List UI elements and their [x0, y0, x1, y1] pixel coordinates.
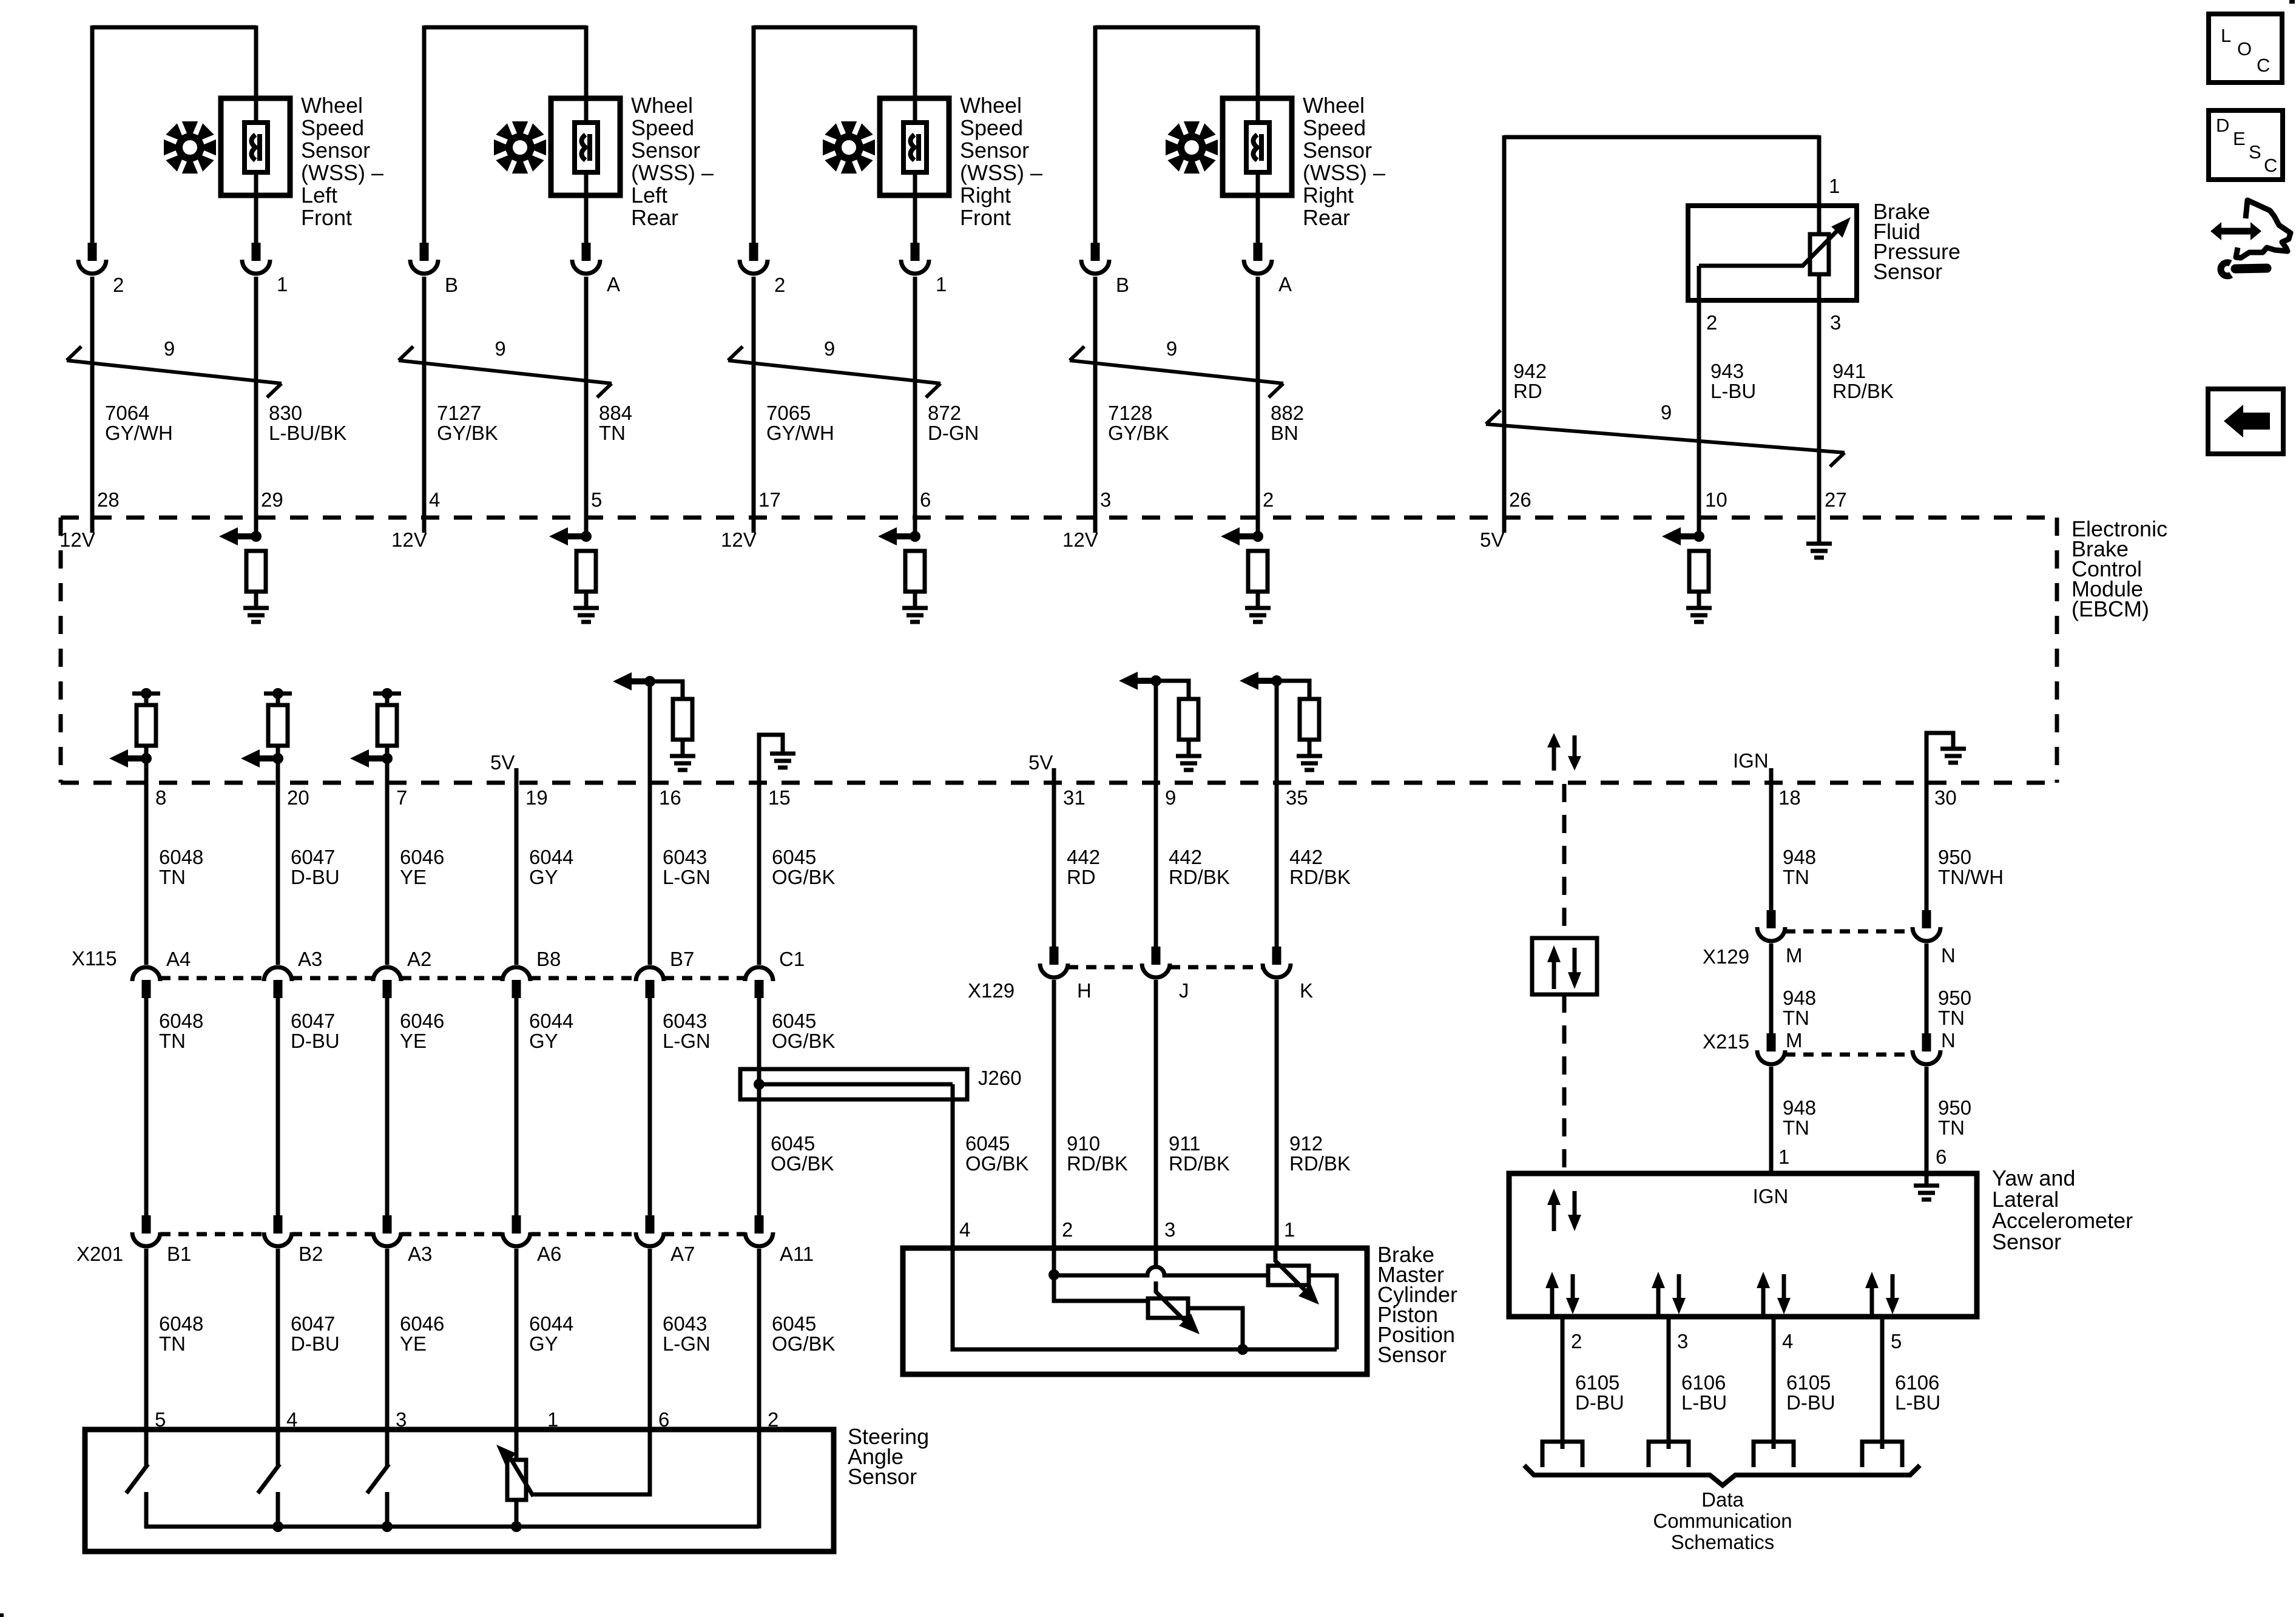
- switch contact 4: [276, 1427, 280, 1467]
- svg-text:M: M: [1786, 1029, 1803, 1052]
- wire A11 to bus: [757, 1249, 761, 1528]
- svg-text:Sensor: Sensor: [960, 138, 1029, 163]
- wire 6105 D-BU: [1772, 1317, 1776, 1449]
- wire WSS left front pin 2 lead: [90, 25, 95, 245]
- wire: [1697, 592, 1701, 608]
- ground: [670, 754, 695, 758]
- branch to R2: [1054, 1275, 1148, 1301]
- junction: [1237, 1344, 1248, 1355]
- brake fluid pressure sensor top wire: [1504, 135, 1819, 140]
- EBCM dashed box bottom edge: [61, 781, 2057, 785]
- switch contact 5: [144, 1427, 149, 1467]
- svg-text:882: 882: [1271, 402, 1304, 424]
- svg-text:Wheel: Wheel: [301, 93, 363, 118]
- wire 7065 GY/WH: [752, 277, 756, 533]
- splice pack J260: [740, 1069, 967, 1099]
- wire pin 2 internal: [1052, 1249, 1056, 1275]
- wire 6106 L-BU: [1667, 1317, 1671, 1449]
- serial data symbol above EBCM edge: [1552, 746, 1556, 771]
- svg-text:4: 4: [429, 488, 440, 511]
- serial data symbol yaw pin 3: [1656, 1287, 1661, 1314]
- wire: [681, 740, 685, 756]
- connector X215 pin M: [1767, 1033, 1776, 1052]
- wire pin 35 internal: [1275, 681, 1279, 784]
- svg-text:C: C: [2257, 55, 2270, 76]
- harness 9 crossing WSS left rear: [399, 360, 612, 383]
- resistor: [673, 699, 692, 740]
- wire: [144, 746, 149, 784]
- svg-text:948: 948: [1783, 846, 1816, 868]
- svg-text:Data: Data: [1701, 1488, 1744, 1511]
- wire 950 TN (X215 to yaw sensor): [1925, 1067, 1929, 1176]
- wire pin 9 internal: [1154, 681, 1158, 784]
- wire 6105 D-BU: [1561, 1317, 1565, 1449]
- wire 942 RD: [1502, 135, 1507, 533]
- svg-text:Left: Left: [631, 183, 667, 208]
- wire WSS right rear pin B lead: [1093, 25, 1098, 245]
- svg-text:6106: 6106: [1681, 1371, 1726, 1394]
- dashed serial data wire (to yaw sensor): [1562, 994, 1567, 1173]
- svg-text:1: 1: [936, 273, 947, 295]
- wheel speed sensor right front top wire: [754, 25, 915, 30]
- wire: [1187, 740, 1191, 756]
- svg-text:2: 2: [1062, 1218, 1073, 1241]
- svg-text:A: A: [607, 273, 620, 295]
- connector X215 pin N: [1922, 1033, 1931, 1052]
- ground: [243, 606, 269, 610]
- svg-text:9: 9: [164, 337, 175, 360]
- connector X115 pin A3: [264, 967, 292, 981]
- wire 7127 GY/BK: [422, 277, 427, 533]
- ground: [1297, 754, 1322, 758]
- switch lower contact: [385, 1492, 390, 1528]
- svg-text:X215: X215: [1703, 1030, 1749, 1053]
- wire 6048 TN (X115 to X201): [144, 997, 149, 1215]
- wire WSS right front pin 1 lead: [913, 25, 917, 245]
- wire: [276, 746, 280, 784]
- svg-text:7: 7: [396, 786, 407, 809]
- EBCM dashed box right edge: [2055, 518, 2059, 783]
- wire 7128 GY/BK: [1093, 277, 1098, 533]
- svg-text:6043: 6043: [663, 1312, 707, 1335]
- pull-up node pin 10: [1693, 531, 1704, 542]
- diagnostic tool icon wrench: [2221, 263, 2231, 276]
- svg-text:884: 884: [599, 402, 632, 424]
- svg-text:GY/BK: GY/BK: [437, 422, 498, 444]
- svg-text:26: 26: [1509, 488, 1531, 511]
- svg-text:6047: 6047: [291, 1010, 335, 1032]
- svg-text:GY/WH: GY/WH: [766, 422, 834, 444]
- svg-text:X201: X201: [76, 1243, 123, 1265]
- wire: [584, 592, 589, 608]
- svg-text:L-BU/BK: L-BU/BK: [269, 422, 346, 444]
- svg-text:16: 16: [659, 786, 681, 809]
- wire 950 TN/WH (EBCM to X129): [1925, 783, 1929, 928]
- connector X115 pin B7: [636, 967, 664, 981]
- svg-text:Speed: Speed: [1303, 115, 1366, 140]
- R1 wiper from pin 1: [1274, 1248, 1278, 1262]
- R2 output: [1188, 1308, 1243, 1349]
- svg-text:E: E: [2233, 128, 2246, 149]
- svg-text:TN: TN: [1783, 866, 1809, 888]
- svg-text:Wheel: Wheel: [631, 93, 693, 118]
- svg-text:6048: 6048: [159, 1010, 203, 1032]
- svg-text:YE: YE: [400, 1332, 427, 1355]
- wire: [1256, 592, 1260, 608]
- svg-text:A: A: [1278, 273, 1292, 295]
- svg-text:K: K: [1300, 979, 1313, 1002]
- svg-text:6: 6: [1936, 1146, 1947, 1168]
- pickup element WSS right front: [903, 123, 927, 172]
- resistor: [1300, 699, 1319, 740]
- svg-text:9: 9: [824, 337, 835, 360]
- svg-text:M: M: [1786, 944, 1803, 967]
- svg-text:Speed: Speed: [960, 115, 1023, 140]
- svg-text:GY/WH: GY/WH: [105, 422, 173, 444]
- svg-text:OG/BK: OG/BK: [965, 1152, 1029, 1175]
- switch contact 3: [385, 1427, 390, 1467]
- svg-text:442: 442: [1067, 846, 1100, 868]
- svg-text:Sensor: Sensor: [631, 138, 700, 163]
- svg-text:IGN: IGN: [1753, 1185, 1789, 1207]
- svg-text:BN: BN: [1271, 422, 1298, 444]
- svg-text:TN: TN: [1783, 1007, 1809, 1029]
- serial data symbol yaw pin 5: [1870, 1287, 1874, 1314]
- wire 948 TN (EBCM to X129): [1769, 768, 1774, 928]
- svg-text:A3: A3: [298, 948, 322, 970]
- svg-text:5V: 5V: [1028, 751, 1053, 774]
- svg-text:5: 5: [1891, 1330, 1902, 1352]
- branch to pull resistor: [650, 681, 683, 699]
- wire WSS left rear pin A lead: [584, 25, 589, 245]
- X201 dashed connector line: [160, 1232, 264, 1237]
- svg-text:12V: 12V: [1062, 528, 1098, 551]
- svg-text:950: 950: [1938, 846, 1971, 868]
- svg-text:J: J: [1179, 979, 1189, 1002]
- wire to R1 with hop over pin3 wire: [1054, 1267, 1268, 1275]
- svg-text:S: S: [2249, 141, 2261, 163]
- svg-text:OG/BK: OG/BK: [772, 866, 836, 888]
- wire 884 TN: [584, 277, 589, 536]
- EBCM internal sensor feed 7: rail tee: [373, 692, 401, 696]
- harness 9 crossing WSS left front: [67, 360, 282, 383]
- connector X201 pin B2: [274, 1215, 283, 1234]
- wire 442 RD: [1052, 768, 1056, 965]
- wire pin 16 internal: [648, 681, 652, 784]
- diagnostic tool icon double arrow: [2221, 228, 2251, 235]
- svg-text:Sensor: Sensor: [848, 1464, 917, 1489]
- back arrow box: [2208, 389, 2283, 454]
- wire 882 BN: [1256, 277, 1260, 536]
- svg-text:Sensor: Sensor: [1377, 1342, 1447, 1367]
- svg-text:RD/BK: RD/BK: [1169, 866, 1230, 888]
- resistor: [144, 694, 149, 705]
- brace data communication: [1524, 1465, 1920, 1485]
- svg-text:6105: 6105: [1786, 1371, 1831, 1394]
- svg-text:872: 872: [928, 402, 961, 424]
- wire WSS right rear pin A lead: [1256, 25, 1260, 245]
- X115 dashed connector line: [160, 976, 264, 981]
- svg-text:D-GN: D-GN: [928, 422, 979, 444]
- 12V pull-up resistor node pin 6: [910, 531, 920, 542]
- svg-text:GY: GY: [529, 1030, 558, 1052]
- svg-text:YE: YE: [400, 1030, 427, 1052]
- svg-text:5V: 5V: [1480, 528, 1504, 551]
- svg-text:L-BU: L-BU: [1895, 1391, 1940, 1414]
- output node with arrow: [141, 753, 152, 764]
- wire 6044 GY (X115 to X201): [515, 997, 519, 1215]
- connector X129 pin J: [1152, 947, 1161, 965]
- serial data symbol yaw top: [1552, 1204, 1556, 1231]
- brake fluid pressure sensor box: [1688, 206, 1857, 300]
- switch blade: [367, 1464, 389, 1493]
- svg-text:4: 4: [959, 1218, 970, 1241]
- X129 dashed connector line: [1068, 965, 1142, 970]
- ground: [1940, 747, 1966, 751]
- svg-text:O: O: [2237, 38, 2252, 59]
- wire 950 TN (X129 to X215): [1925, 944, 1929, 1052]
- svg-text:912: 912: [1289, 1132, 1323, 1155]
- wire WSS left rear pin B lead: [422, 25, 427, 245]
- svg-text:942: 942: [1513, 360, 1547, 382]
- svg-text:D-BU: D-BU: [1575, 1391, 1624, 1414]
- svg-text:6043: 6043: [663, 1010, 707, 1032]
- svg-text:15: 15: [768, 786, 791, 809]
- svg-text:Rear: Rear: [1303, 205, 1350, 230]
- connector pin 2 WSS left front: [88, 243, 97, 261]
- svg-text:(WSS) –: (WSS) –: [301, 160, 383, 185]
- wire pin 27 to ground: [1817, 518, 1822, 544]
- resistor to bus: [515, 1500, 519, 1528]
- connector pin A WSS left rear: [582, 243, 591, 261]
- svg-text:Schematics: Schematics: [1671, 1531, 1775, 1553]
- X129 MN dashed connector line: [1785, 930, 1913, 934]
- connector X115 pin A2: [373, 967, 401, 981]
- svg-text:TN: TN: [599, 422, 626, 444]
- svg-text:RD: RD: [1067, 866, 1096, 888]
- 12V pull-up resistor node pin 29: [251, 531, 262, 542]
- svg-text:442: 442: [1169, 846, 1202, 868]
- svg-text:RD/BK: RD/BK: [1289, 1152, 1351, 1175]
- svg-text:9: 9: [1166, 337, 1177, 360]
- svg-text:RD/BK: RD/BK: [1067, 1152, 1128, 1175]
- svg-text:A7: A7: [670, 1243, 695, 1265]
- wire pin 2 lead: [1697, 266, 1701, 533]
- serial data box: [1532, 938, 1597, 994]
- connector pin B WSS right rear: [1091, 243, 1100, 261]
- EBCM internal sensor feed 8: rail tee: [132, 692, 160, 696]
- svg-text:D-BU: D-BU: [1786, 1391, 1835, 1414]
- svg-text:2: 2: [1263, 488, 1274, 511]
- svg-text:6044: 6044: [529, 1010, 573, 1032]
- resistor: [576, 551, 596, 592]
- EBCM internal sensor feed 20: rail tee: [264, 692, 292, 696]
- ground: [1245, 606, 1271, 610]
- svg-text:RD/BK: RD/BK: [1832, 380, 1894, 402]
- svg-text:1: 1: [1829, 175, 1840, 197]
- svg-text:(WSS) –: (WSS) –: [1303, 160, 1385, 185]
- switch blade: [258, 1464, 280, 1493]
- wire 6043 L-GN (X115 to X201): [648, 997, 652, 1215]
- svg-text:C: C: [2264, 155, 2277, 176]
- wire 830 L-BU/BK: [254, 277, 258, 536]
- LOC box: [2209, 14, 2282, 83]
- wheel speed sensor right rear top wire: [1095, 25, 1258, 30]
- svg-text:6043: 6043: [663, 846, 707, 868]
- EBCM internal: pin 15 ground hook: [759, 735, 783, 784]
- svg-text:RD/BK: RD/BK: [1289, 866, 1351, 888]
- branch to pull resistor: [1277, 681, 1309, 699]
- wire 6047 D-BU (X115 to X201): [276, 997, 280, 1215]
- svg-text:2: 2: [1706, 311, 1717, 334]
- sensor box WSS left front: [221, 98, 290, 195]
- connector X115 pin B8: [502, 967, 530, 981]
- resistor: [905, 551, 925, 592]
- svg-text:N: N: [1941, 1029, 1956, 1052]
- wire 6045 OG/BK (X201 to steering angle sensor): [757, 1249, 761, 1432]
- svg-text:6045: 6045: [771, 1132, 815, 1155]
- wire 6045 OG/BK (X115 to X201): [757, 997, 761, 1215]
- steering angle sensor box: [85, 1430, 834, 1551]
- svg-text:6047: 6047: [291, 846, 335, 868]
- svg-text:35: 35: [1286, 786, 1308, 809]
- svg-text:950: 950: [1938, 987, 1971, 1009]
- svg-text:Rear: Rear: [631, 205, 678, 230]
- wire 911 RD/BK: [1154, 980, 1158, 1268]
- sensor box WSS right front: [880, 98, 949, 195]
- svg-text:Front: Front: [960, 205, 1011, 230]
- svg-text:7065: 7065: [766, 402, 811, 424]
- wire 6047 D-BU (EBCM to X115): [276, 783, 280, 965]
- pickup element WSS left rear: [575, 123, 598, 172]
- connector X201 pin A7: [646, 1215, 655, 1234]
- connector X129 pin M: [1767, 910, 1776, 928]
- svg-text:D-BU: D-BU: [291, 1332, 340, 1355]
- resistor: [276, 694, 280, 705]
- svg-text:948: 948: [1783, 1096, 1816, 1119]
- svg-text:Right: Right: [960, 183, 1011, 208]
- variable resistor R2: [1148, 1298, 1188, 1318]
- svg-text:D-BU: D-BU: [291, 1030, 340, 1052]
- wire: [913, 592, 917, 608]
- wire: [1308, 740, 1312, 756]
- resistor: [1179, 699, 1198, 740]
- svg-text:2: 2: [1571, 1330, 1582, 1352]
- sensor box WSS left rear: [551, 98, 620, 195]
- wire 912 RD/BK: [1275, 980, 1279, 1250]
- EBCM dashed box top edge: [61, 516, 2057, 520]
- resistor: [246, 551, 266, 592]
- svg-text:2: 2: [774, 274, 785, 296]
- svg-text:TN: TN: [159, 1030, 186, 1052]
- wire: [385, 746, 390, 784]
- gear symbol WSS left front: [164, 121, 216, 174]
- wire: [254, 592, 258, 608]
- svg-text:X129: X129: [1703, 945, 1749, 968]
- connector X201 pin A11: [755, 1215, 764, 1234]
- wiper wire from pin 2: [1699, 224, 1843, 266]
- svg-text:TN: TN: [1783, 1116, 1809, 1139]
- svg-text:RD/BK: RD/BK: [1169, 1152, 1230, 1175]
- wire 6048 TN (EBCM to X115): [144, 783, 149, 965]
- wire WSS right front pin 2 lead: [752, 25, 756, 245]
- svg-text:B: B: [1116, 274, 1129, 296]
- svg-text:OG/BK: OG/BK: [772, 1030, 836, 1052]
- wire 6045 OG/BK (EBCM to X115): [757, 783, 761, 965]
- wire A6 to variable resistor: [515, 1427, 519, 1460]
- svg-text:1: 1: [277, 273, 288, 295]
- wire 6043 L-GN (EBCM to X115): [648, 783, 652, 965]
- svg-text:TN: TN: [159, 866, 186, 888]
- harness 9 crossing pressure sensor: [1486, 424, 1845, 453]
- wiper arrow: [508, 1455, 533, 1496]
- svg-text:D: D: [2216, 115, 2229, 136]
- svg-text:OG/BK: OG/BK: [771, 1152, 834, 1175]
- connector X129 pin H: [1050, 947, 1059, 965]
- wire 6045 OG/BK branch from J260: [951, 1084, 955, 1249]
- svg-text:18: 18: [1778, 786, 1801, 809]
- svg-text:L-GN: L-GN: [663, 1030, 711, 1052]
- svg-text:3: 3: [1100, 488, 1111, 511]
- yaw and lateral accelerometer sensor box: [1509, 1173, 1977, 1317]
- svg-text:911: 911: [1169, 1132, 1201, 1155]
- diagnostic tool icon outline: [2236, 200, 2291, 258]
- svg-text:7127: 7127: [437, 402, 481, 424]
- svg-text:B7: B7: [670, 948, 694, 970]
- ground: [573, 606, 599, 610]
- ground: [1686, 606, 1712, 610]
- harness 9 crossing WSS right rear: [1070, 360, 1283, 383]
- svg-text:6: 6: [920, 488, 931, 511]
- wire 6046 YE (X201 to steering angle sensor): [385, 1249, 390, 1432]
- EBCM internal: pin 35 node: [1271, 675, 1282, 686]
- svg-text:A4: A4: [166, 948, 191, 970]
- svg-text:29: 29: [261, 488, 283, 511]
- svg-text:1: 1: [1284, 1218, 1295, 1241]
- ground: [770, 752, 795, 756]
- variable resistor R1: [1268, 1266, 1309, 1285]
- svg-text:6046: 6046: [400, 846, 444, 868]
- EBCM dashed box left edge: [59, 518, 63, 783]
- svg-text:830: 830: [269, 402, 302, 424]
- svg-text:B8: B8: [536, 948, 561, 970]
- wire pin 1 lead: [1817, 135, 1822, 235]
- wire WSS left front pin 1 lead: [254, 25, 258, 245]
- svg-text:910: 910: [1067, 1132, 1100, 1155]
- connector X201 pin B1: [142, 1215, 151, 1234]
- svg-text:H: H: [1077, 979, 1092, 1002]
- ground: [1806, 542, 1832, 546]
- svg-text:6105: 6105: [1575, 1371, 1619, 1394]
- svg-text:4: 4: [1782, 1330, 1793, 1352]
- svg-text:Left: Left: [301, 183, 337, 208]
- resistor: [1689, 551, 1709, 592]
- svg-text:J260: J260: [978, 1067, 1022, 1089]
- svg-text:TN: TN: [159, 1332, 186, 1355]
- svg-text:(WSS) –: (WSS) –: [960, 160, 1042, 185]
- svg-text:Wheel: Wheel: [960, 93, 1022, 118]
- svg-text:Communication: Communication: [1653, 1510, 1792, 1532]
- EBCM internal: pin 16 node: [644, 676, 655, 687]
- svg-text:X129: X129: [968, 979, 1015, 1002]
- svg-text:6048: 6048: [159, 846, 203, 868]
- 12V pull-up resistor node pin 5: [581, 531, 592, 542]
- svg-text:9: 9: [1661, 401, 1672, 424]
- svg-text:9: 9: [1165, 786, 1176, 809]
- X215 MN dashed connector line: [1785, 1053, 1913, 1057]
- svg-text:12V: 12V: [391, 528, 427, 551]
- connector X129 pin N: [1922, 910, 1931, 928]
